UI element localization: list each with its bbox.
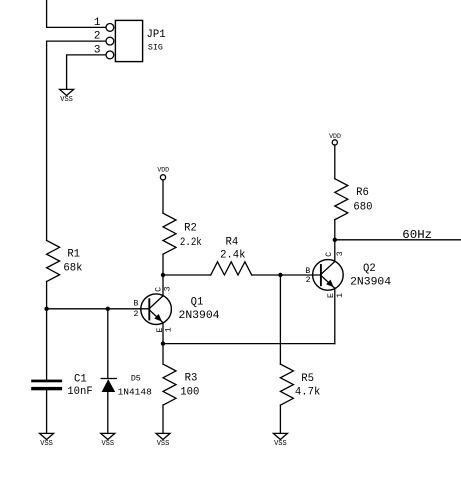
svg-text:R3: R3: [185, 373, 198, 385]
svg-text:VSS: VSS: [101, 440, 114, 448]
svg-text:1: 1: [94, 17, 101, 29]
wire base rail: [47, 308, 150, 310]
svg-text:VSS: VSS: [60, 96, 73, 104]
wire Q1 emitter: [162, 323, 164, 344]
svg-text:VSS: VSS: [157, 440, 170, 448]
wire Q2 collector: [334, 240, 336, 262]
svg-text:4.7k: 4.7k: [295, 387, 320, 399]
resistor R2: [163, 213, 176, 254]
svg-text:R2: R2: [184, 223, 197, 235]
resistor R6: [335, 179, 348, 220]
svg-text:R1: R1: [67, 249, 80, 261]
wire VDD to R6: [334, 145, 336, 179]
svg-text:3: 3: [164, 286, 173, 291]
resistor R4: [211, 262, 252, 275]
wire R6 bottom: [334, 220, 336, 240]
svg-text:100: 100: [180, 386, 199, 398]
node junction R4/R5/Q2 base: [278, 273, 282, 277]
svg-text:C1: C1: [74, 373, 87, 385]
svg-text:1: 1: [336, 293, 345, 298]
svg-text:JP1: JP1: [147, 29, 166, 41]
node junction R2/R4/Q1 collector: [161, 273, 165, 277]
svg-text:2N3904: 2N3904: [178, 310, 219, 322]
connector JP1: [106, 20, 143, 61]
power VDD (R2): [157, 166, 169, 180]
svg-text:B: B: [305, 267, 310, 276]
ground VSS (R3): [156, 433, 170, 448]
svg-text:Q1: Q1: [191, 297, 204, 309]
wire Q1 collector: [162, 275, 164, 296]
svg-text:Q2: Q2: [363, 263, 376, 275]
svg-text:3: 3: [336, 251, 345, 256]
svg-text:10nF: 10nF: [67, 386, 92, 398]
resistor R5: [280, 364, 293, 405]
node junction Q1 emitter/R3: [161, 341, 165, 345]
wire pin 2 to left rail: [47, 41, 106, 240]
svg-text:B: B: [133, 300, 138, 309]
wire R4 left: [163, 274, 211, 276]
svg-text:680: 680: [353, 202, 372, 214]
svg-text:2: 2: [306, 276, 311, 285]
svg-text:2.4k: 2.4k: [220, 250, 245, 262]
svg-text:2: 2: [94, 31, 101, 43]
svg-text:1N4148: 1N4148: [118, 387, 153, 398]
wire R5 bottom: [279, 405, 281, 433]
svg-text:68k: 68k: [63, 263, 82, 275]
wire R4 right: [252, 274, 281, 276]
wire C1 top: [46, 309, 48, 380]
svg-text:C: C: [325, 252, 334, 257]
node junction R6/Q2 collector/output: [333, 238, 337, 242]
svg-text:2.2k: 2.2k: [180, 237, 202, 249]
ground VSS (C1): [40, 433, 54, 448]
svg-text:SIG: SIG: [148, 43, 163, 52]
svg-text:VDD: VDD: [329, 133, 341, 140]
resistor R3: [163, 364, 176, 405]
ground VSS (JP1 pin3): [60, 89, 74, 104]
wire R3 top: [162, 344, 164, 365]
wire pin 3 to ground: [67, 55, 106, 90]
wire top rail to pin 1: [47, 0, 106, 27]
transistor Q2: [313, 260, 344, 291]
svg-text:2N3904: 2N3904: [350, 276, 391, 288]
wire Q2 base: [280, 274, 321, 276]
capacitor C1: [31, 380, 62, 391]
svg-text:VSS: VSS: [274, 440, 287, 448]
node junction D5: [106, 307, 110, 311]
wire R2 bottom: [162, 254, 164, 275]
wire emitter rail: [163, 343, 335, 345]
diode D5: [101, 379, 116, 393]
power VDD (R6): [329, 133, 341, 145]
wire R3 bottom: [162, 405, 164, 433]
wire D5 top: [107, 309, 109, 379]
svg-text:R6: R6: [356, 187, 369, 199]
svg-text:1: 1: [164, 327, 173, 332]
ground VSS (D5): [101, 433, 115, 448]
wire C1 bottom: [46, 390, 48, 433]
resistor R1: [47, 241, 60, 282]
wire R1 bottom: [46, 282, 48, 309]
ground VSS (R5): [273, 433, 287, 448]
node junction R1/C1: [44, 307, 48, 311]
wire output 60Hz: [335, 239, 461, 241]
wire VDD to R2: [162, 180, 164, 213]
svg-text:VDD: VDD: [157, 166, 169, 173]
svg-text:D5: D5: [131, 375, 141, 384]
transistor Q1: [141, 294, 172, 325]
svg-text:C: C: [155, 287, 164, 292]
wire Q2 emitter: [334, 288, 336, 343]
svg-text:R4: R4: [226, 237, 239, 249]
svg-text:VSS: VSS: [40, 440, 53, 448]
wire D5 bottom: [107, 392, 109, 433]
wire R5 riser: [279, 275, 281, 364]
svg-text:3: 3: [94, 45, 101, 57]
svg-text:R5: R5: [301, 373, 314, 385]
svg-text:60Hz: 60Hz: [402, 229, 432, 242]
svg-text:2: 2: [133, 310, 138, 319]
